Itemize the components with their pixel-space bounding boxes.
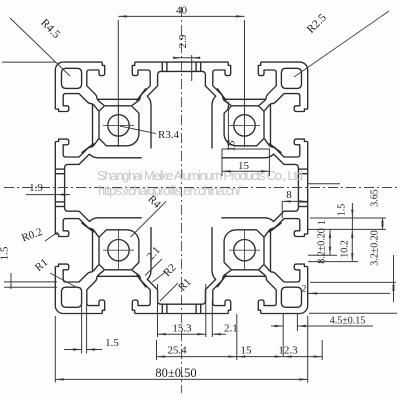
svg-text:1.5: 1.5 (337, 204, 348, 217)
svg-text:40: 40 (176, 5, 188, 17)
svg-text:2.9: 2.9 (177, 34, 189, 48)
svg-text:80±0.50: 80±0.50 (155, 366, 196, 380)
svg-text:1.5: 1.5 (0, 246, 11, 260)
svg-text:2: 2 (302, 285, 307, 295)
svg-text:Shanghai Meike Aluminum Produc: Shanghai Meike Aluminum Products Co., Lt… (97, 168, 303, 183)
svg-text:15.3: 15.3 (172, 323, 192, 335)
svg-text:12.3: 12.3 (278, 345, 298, 357)
svg-text:1.9: 1.9 (29, 182, 43, 194)
svg-text:10.2: 10.2 (340, 240, 351, 258)
svg-text:https://chaluprofils.en.china.: https://chaluprofils.en.china.cn/ (98, 183, 241, 198)
svg-text:1.5: 1.5 (105, 337, 119, 349)
svg-text:2.1: 2.1 (224, 323, 238, 335)
svg-text:R3.4: R3.4 (158, 129, 180, 141)
svg-text:15: 15 (238, 160, 250, 172)
svg-text:1: 1 (317, 220, 328, 225)
svg-text:15: 15 (241, 345, 253, 357)
svg-text:8.2±0.20: 8.2±0.20 (317, 228, 328, 264)
svg-text:8: 8 (286, 189, 292, 201)
svg-text:3.65: 3.65 (370, 189, 381, 207)
svg-text:3.2±0.20: 3.2±0.20 (370, 230, 381, 266)
svg-text:4.5±0.15: 4.5±0.15 (330, 316, 366, 327)
svg-text:25.4: 25.4 (167, 345, 187, 357)
svg-text:15: 15 (226, 140, 238, 152)
